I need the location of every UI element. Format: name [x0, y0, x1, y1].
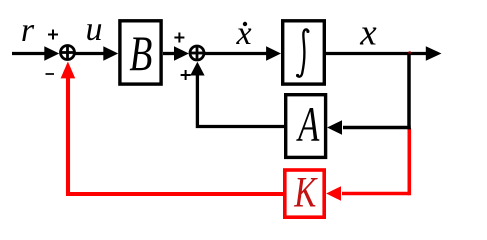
svg-text:u: u — [86, 11, 103, 48]
svg-text:A: A — [296, 98, 320, 152]
plus sign at S1 (top left) — [48, 30, 58, 40]
wire: B to summing junction S2 — [163, 52, 176, 55]
arrowhead into S1 — [44, 46, 59, 60]
wire: S2 to integrator — [205, 52, 269, 55]
red arrowhead into K — [326, 186, 341, 200]
arrowhead into S2 — [174, 46, 189, 60]
svg-text:x: x — [359, 13, 377, 54]
integrator block U1 — [283, 21, 325, 84]
arrowhead into A — [327, 120, 342, 134]
plus sign at S2 (bottom left) — [181, 70, 191, 80]
red arrowhead up into S1 — [61, 62, 76, 79]
summing junction S1 — [61, 46, 75, 60]
wire: input r to summing junction S1 — [12, 52, 46, 55]
wire: red K output to S1 (left then up) — [68, 76, 283, 194]
wire: black vertical drop from node x to A level — [407, 54, 411, 130]
arrowhead into B — [103, 46, 118, 60]
svg-text:x: x — [235, 15, 251, 52]
block B — [120, 21, 161, 84]
arrowhead into integrator — [266, 46, 281, 60]
plus sign at S2 (top left) — [174, 33, 184, 43]
wire: A output to S2 (left then up) — [197, 72, 284, 127]
wire: A feedback horizontal — [343, 126, 411, 129]
minus sign at S1 (bottom left) — [46, 73, 55, 75]
summing junction S2 — [190, 46, 204, 60]
node x junction dot (red bleed) — [408, 51, 411, 54]
wire: red K feedback horizontal from vertical to K — [342, 192, 409, 196]
wire: red vertical drop from node x to K level — [407, 128, 411, 195]
svg-text:K: K — [293, 169, 318, 216]
block K (red) — [285, 170, 324, 217]
wire: S1 to block B — [76, 52, 106, 55]
svg-text:r: r — [21, 12, 35, 49]
svg-text:B: B — [129, 26, 152, 81]
block A — [286, 95, 326, 158]
output arrowhead — [426, 46, 442, 61]
wire: integrator to output — [326, 52, 427, 55]
arrowhead up into S2 — [190, 62, 204, 76]
